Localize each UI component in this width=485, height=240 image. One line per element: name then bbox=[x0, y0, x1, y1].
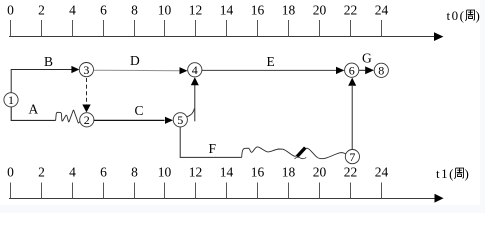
svg-text:14: 14 bbox=[220, 3, 234, 18]
svg-text:10: 10 bbox=[158, 3, 172, 18]
wire: node1 down elbow + activity A line bbox=[11, 107, 55, 121]
node 1 bbox=[4, 93, 18, 107]
free float squiggle on A bbox=[56, 110, 81, 123]
node 7 bbox=[345, 150, 359, 164]
node 2 bbox=[80, 113, 94, 127]
svg-text:6: 6 bbox=[349, 63, 355, 77]
svg-text:0: 0 bbox=[7, 3, 14, 18]
node 6 bbox=[345, 63, 359, 77]
svg-text:18: 18 bbox=[282, 3, 296, 18]
svg-text:8: 8 bbox=[131, 3, 138, 18]
axis t0 label t0(zhou) bbox=[447, 8, 480, 23]
svg-text:4: 4 bbox=[69, 3, 76, 18]
axis t0 ticks bbox=[11, 20, 382, 37]
svg-text:1: 1 bbox=[8, 93, 14, 107]
activity G arrow node6 to node8 bbox=[359, 66, 374, 74]
svg-text:24: 24 bbox=[375, 3, 389, 18]
svg-text:2: 2 bbox=[38, 3, 45, 18]
svg-text:18: 18 bbox=[282, 165, 296, 180]
svg-text:2: 2 bbox=[38, 165, 45, 180]
svg-text:16: 16 bbox=[251, 3, 265, 18]
svg-text:16: 16 bbox=[251, 165, 265, 180]
right page strip bbox=[480, 0, 485, 213]
svg-text:22: 22 bbox=[344, 165, 358, 180]
svg-text:10: 10 bbox=[158, 165, 172, 180]
svg-text:D: D bbox=[130, 53, 140, 68]
node 5 bbox=[173, 113, 187, 127]
wire: node5 down elbow + activity F line bbox=[180, 127, 242, 158]
svg-text:12: 12 bbox=[189, 3, 203, 18]
svg-text:8: 8 bbox=[378, 64, 384, 78]
svg-text:12: 12 bbox=[189, 165, 203, 180]
activity E line bbox=[202, 67, 344, 74]
activity C line bbox=[94, 117, 173, 124]
svg-text:22: 22 bbox=[344, 3, 358, 18]
svg-text:6: 6 bbox=[100, 165, 107, 180]
svg-text:24: 24 bbox=[375, 165, 389, 180]
wire: node7 up to node6 arrow bbox=[348, 78, 356, 150]
svg-text:4: 4 bbox=[192, 63, 198, 77]
svg-text:8: 8 bbox=[131, 165, 138, 180]
break slash underline squiggle bbox=[295, 157, 307, 159]
svg-text:6: 6 bbox=[100, 3, 107, 18]
svg-text:B: B bbox=[44, 54, 53, 69]
node 4 bbox=[188, 63, 202, 77]
axis t1 ticks bbox=[11, 183, 382, 199]
free float wave on F to node7 bbox=[242, 147, 346, 159]
svg-text:C: C bbox=[135, 103, 144, 118]
axis t1 line bbox=[9, 194, 444, 203]
svg-text:7: 7 bbox=[349, 150, 355, 164]
svg-text:2: 2 bbox=[84, 113, 90, 127]
axis t1 label t1(zhou) bbox=[436, 166, 469, 181]
bottom page strip bbox=[0, 205, 485, 213]
svg-text:4: 4 bbox=[69, 165, 76, 180]
svg-text:20: 20 bbox=[313, 165, 327, 180]
dashed dummy arrow node3 to node2 bbox=[82, 78, 90, 112]
axis t1 numbers bbox=[7, 165, 388, 180]
axis t0 numbers bbox=[7, 3, 388, 18]
svg-text:t1(: t1( bbox=[436, 166, 455, 181]
svg-text:A: A bbox=[29, 102, 39, 117]
svg-text:t0(: t0( bbox=[447, 8, 466, 23]
node 3 bbox=[79, 63, 93, 77]
svg-text:E: E bbox=[267, 54, 275, 69]
svg-text:3: 3 bbox=[83, 63, 89, 77]
wire: node5 elbow up to node4 (dummy) bbox=[187, 77, 199, 121]
svg-text:): ) bbox=[476, 8, 480, 23]
svg-text:14: 14 bbox=[220, 165, 234, 180]
svg-text:20: 20 bbox=[313, 3, 327, 18]
svg-text:0: 0 bbox=[7, 165, 14, 180]
svg-text:): ) bbox=[465, 166, 469, 181]
activity D line bbox=[94, 67, 188, 74]
break slash mark bbox=[297, 148, 305, 157]
wire: node1 up elbow + activity B line bbox=[11, 66, 79, 93]
node 8 bbox=[374, 63, 388, 77]
svg-text:G: G bbox=[362, 51, 372, 66]
axis t0 line bbox=[9, 32, 443, 41]
svg-text:5: 5 bbox=[177, 113, 183, 127]
svg-text:F: F bbox=[209, 141, 217, 156]
